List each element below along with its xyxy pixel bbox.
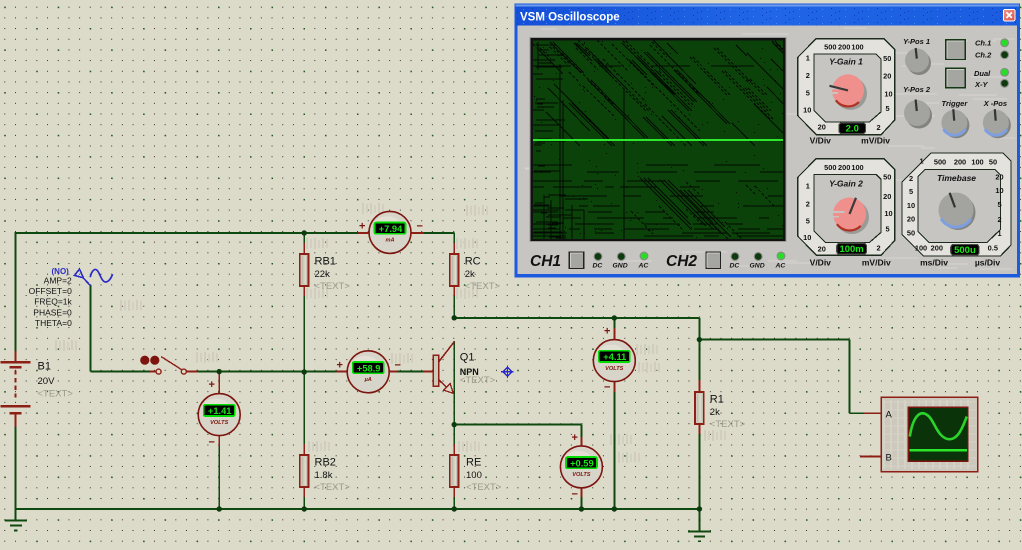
pin stub B1 + pin [15,351,17,362]
svg-text:+: + [337,360,343,372]
svg-text:200: 200 [838,163,850,172]
wire RB1 column [303,233,305,254]
svg-text:mV/Div: mV/Div [861,136,890,146]
pin stub switch right pin [186,371,198,373]
svg-text:200: 200 [931,243,943,252]
svg-text:RE: RE [466,457,481,469]
svg-text:DC: DC [730,263,740,270]
Timebase LCD 500u [951,244,979,255]
svg-text:<TEXT>: <TEXT> [315,281,351,292]
svg-text:1: 1 [919,157,923,166]
svg-text:10: 10 [884,209,892,218]
svg-text:mV/Div: mV/Div [862,258,891,268]
svg-text:10: 10 [803,106,811,115]
Y-Gain 2 LCD 100m [837,243,867,254]
resistor RE [450,455,459,487]
svg-text:10: 10 [884,90,892,99]
pin stub RB1 bottom pin [303,285,305,296]
svg-text:<TEXT>: <TEXT> [465,281,501,292]
svg-text:mA: mA [385,238,394,244]
svg-text:Ch.1: Ch.1 [975,38,991,47]
pin stub Q1 base pin [423,371,434,373]
voltmeter +0.59 [560,446,602,488]
svg-text:X -Pos: X -Pos [983,99,1007,108]
svg-text:2: 2 [909,174,913,183]
svg-text:10: 10 [995,186,1003,195]
svg-text:Dual: Dual [974,69,991,78]
CH1 trace line [533,139,783,141]
svg-text:50: 50 [883,54,891,63]
svg-text:VSM Oscilloscope: VSM Oscilloscope [520,12,620,24]
transistor Q1 [433,355,438,386]
CH1 input button [569,252,583,268]
svg-text:DC: DC [593,263,603,270]
svg-text:5: 5 [886,224,890,233]
svg-text:200: 200 [954,158,966,167]
svg-text:−: − [417,221,423,233]
svg-text:OFFSET=0: OFFSET=0 [29,286,72,296]
CH2 DC/GND/AC leds [731,253,739,261]
Trigger knob [943,112,969,138]
window frame/borders [515,4,1021,278]
svg-text:A: A [886,410,893,421]
pin stub uA meter + pin [337,371,349,373]
Y-Gain 1 LCD 2.0 [839,123,866,134]
svg-text:20: 20 [995,173,1003,182]
svg-text:B: B [886,453,892,464]
svg-text:0.5: 0.5 [988,243,998,252]
svg-text:2: 2 [806,71,810,80]
voltmeter +4.11 [593,340,635,382]
Timebase panel [902,153,1011,256]
wire top rail [16,232,455,234]
graph pin A [864,412,881,414]
svg-text:20: 20 [907,215,915,224]
CH1 DC/GND/AC leds [594,253,602,261]
svg-text:2.0: 2.0 [846,123,859,134]
pin stub VM +4.11 - pin [613,381,615,392]
svg-text:100: 100 [915,243,927,252]
pin stub RE top pin [453,444,455,456]
svg-text:Timebase: Timebase [937,173,976,183]
svg-text:<TEXT>: <TEXT> [466,482,502,493]
svg-text:2: 2 [997,215,1001,224]
pin stub B1 - pin [15,413,17,427]
svg-text:AC: AC [775,263,786,270]
svg-text:CH2: CH2 [666,253,697,270]
junction base node [302,369,307,374]
Ch.1 button [946,40,966,60]
svg-text:2: 2 [806,200,810,209]
graph pin B [860,455,881,457]
svg-text:20: 20 [818,123,826,132]
svg-text:VOLTS: VOLTS [210,420,229,426]
svg-text:100: 100 [851,43,863,52]
svg-text:Q1: Q1 [460,352,475,364]
svg-text:V/Div: V/Div [810,258,832,268]
svg-text:+58.9: +58.9 [357,363,381,373]
svg-text:500: 500 [934,158,946,167]
svg-text:FREQ=1k: FREQ=1k [34,297,72,307]
svg-text:2k: 2k [710,407,720,418]
svg-text:100: 100 [971,158,983,167]
compression ghost marks [306,238,328,249]
pin stub VM +0.59 + pin [580,437,582,447]
svg-text:50: 50 [907,229,915,238]
resistor R1 [695,392,704,424]
svg-text:−: − [209,437,215,449]
wire bottom ground rail [15,508,700,510]
svg-text:5: 5 [886,104,890,113]
ground (left) [5,520,27,522]
svg-text:100: 100 [851,163,863,172]
svg-text:5: 5 [806,217,810,226]
ammeter uA +58.9 [347,351,389,393]
Y-Gain 1 panel [798,39,895,135]
svg-text:5: 5 [997,200,1001,209]
switch SW (red actuator dots) [140,356,149,365]
svg-text:1: 1 [997,229,1001,238]
wire left vertical (battery branch) [15,232,17,352]
Y-Pos 2 knob [906,103,932,129]
svg-text:<TEXT>: <TEXT> [460,375,496,386]
svg-text:ms/Div: ms/Div [920,258,948,268]
svg-text:B1: B1 [38,361,51,373]
svg-text:500: 500 [824,163,836,172]
junction ground rail / RB2 [302,506,307,511]
voltmeter +1.41 [198,394,240,436]
svg-text:µA: µA [364,377,372,383]
svg-text:50: 50 [883,173,891,182]
Y-Gain 2 panel [798,159,895,256]
junction ground rail / VM1 [217,506,222,511]
svg-text:V/Div: V/Div [810,136,832,146]
svg-text:+0.59: +0.59 [570,458,594,468]
pin stub uA meter - pin [389,371,397,373]
pin stub R1 bottom pin [698,424,700,434]
junction RB1 top / top rail [302,230,307,235]
svg-text:2k: 2k [465,269,475,280]
svg-text:−: − [395,360,401,372]
pin stub mA meter + pin [358,232,370,234]
svg-text:CH1: CH1 [530,253,561,270]
wire voltmeter1 branch [218,372,220,394]
ground (right) [688,531,711,533]
svg-text:RC: RC [465,256,481,268]
svg-text:VOLTS: VOLTS [605,366,624,372]
wire collector row [454,317,699,319]
svg-text:−: − [604,382,610,394]
svg-text:100: 100 [466,470,482,481]
Y-Gain 2 knob [835,200,869,234]
svg-text:+: + [572,432,578,444]
CRT screen artifact pattern [533,40,828,353]
svg-text:20: 20 [818,245,826,254]
resistor RB2 [300,455,309,487]
svg-text:Y-Gain 1: Y-Gain 1 [829,57,863,67]
sine generator symbol [74,269,83,278]
Dual button [946,68,966,88]
svg-text:200: 200 [838,43,850,52]
pin stub VM +1.41 - pin [218,435,220,446]
svg-text:Trigger: Trigger [942,99,969,108]
svg-text:R1: R1 [710,394,724,406]
pin stub RC bottom pin [453,285,455,296]
svg-text:RB2: RB2 [315,457,336,469]
svg-text:+1.41: +1.41 [208,406,232,416]
wire generator branch [89,285,91,372]
junction ground rail / R1 [697,506,702,511]
junction ground rail / RE [452,506,457,511]
svg-text:GND: GND [750,263,765,270]
svg-text:100m: 100m [839,244,863,255]
CH2 input button [706,252,720,268]
resistor RB1 [300,254,309,286]
pin stub RC top pin [453,243,455,255]
svg-text:µs/Div: µs/Div [975,258,1000,268]
svg-text:+4.11: +4.11 [603,352,626,362]
svg-text:THETA=0: THETA=0 [35,318,72,328]
svg-text:5: 5 [806,89,810,98]
pin stub R1 top pin [698,380,700,392]
svg-text:10: 10 [803,233,811,242]
svg-text:10: 10 [907,201,915,210]
svg-text:20: 20 [883,192,891,201]
switch contacts and blade [156,369,161,374]
svg-text:RB1: RB1 [315,256,336,268]
svg-text:X-Y: X-Y [974,80,989,89]
Y-Gain 1 knob [834,77,867,110]
svg-text:Y-Pos 2: Y-Pos 2 [903,85,931,94]
pin stub RE bottom pin [453,487,455,498]
svg-text:GND: GND [613,263,628,270]
svg-text:<TEXT>: <TEXT> [315,482,351,493]
pin stub RB1 top pin [303,243,305,255]
svg-text:2: 2 [876,243,880,252]
svg-text:<TEXT>: <TEXT> [38,389,74,400]
junction emitter node [452,422,457,427]
svg-text:+: + [209,379,215,391]
ammeter mA +7.94 [369,211,411,253]
junction voltmeter +4.11 tap [612,315,617,320]
wire RB2 column [303,372,305,455]
VSM Oscilloscope window [515,4,1021,354]
pin stub RB2 top pin [303,444,305,456]
pin stub VM +4.11 + pin [613,328,615,341]
svg-text:Y-Pos 1: Y-Pos 1 [903,37,930,46]
Timebase knob [941,195,976,230]
wire voltmeter2 branch [613,318,615,340]
svg-text:−: − [572,489,578,501]
pin stub mA meter - pin [411,232,425,234]
svg-text:500: 500 [824,43,836,52]
svg-text:+: + [604,326,610,338]
client area [518,26,1018,275]
svg-text:VOLTS: VOLTS [572,472,591,478]
svg-text:AC: AC [638,263,649,270]
svg-text:PHASE=0: PHASE=0 [33,307,72,317]
svg-text:<TEXT>: <TEXT> [710,419,746,430]
junction ground rail / VM3 [579,506,584,511]
mode leds [1001,39,1009,47]
wire switch to base [192,371,434,373]
svg-text:Ch.2: Ch.2 [975,50,992,59]
wire to graph A [699,339,849,341]
svg-text:+7.94: +7.94 [379,224,403,234]
X-Pos knob [985,112,1011,138]
wire emitter row to voltmeter3 [454,424,581,426]
svg-text:1.8k: 1.8k [315,470,333,481]
battery B1 [1,361,31,363]
junction ground rail / VM2 [612,506,617,511]
svg-text:500u: 500u [954,245,976,256]
svg-text:20V: 20V [38,376,56,387]
pin stub VM +0.59 - pin [580,487,582,497]
svg-text:1: 1 [806,182,810,191]
wire right column (R1) [698,318,700,392]
origin marker (blue crosshair) [501,365,514,378]
junction voltmeter +1.41 tap [217,369,222,374]
junction R1 top / graph branch [697,337,702,342]
pin stub switch left pin [150,371,156,373]
svg-text:50: 50 [989,158,997,167]
svg-text:AMP=2: AMP=2 [44,276,72,286]
Y-Pos 1 knob [907,51,931,75]
svg-text:5: 5 [909,187,913,196]
scope CRT screen bezel [530,37,787,242]
pin stub RB2 bottom pin [303,487,305,498]
svg-text:2: 2 [876,123,880,132]
junction RC bottom / collector [452,315,457,320]
wire RC column [453,233,455,254]
title bar [516,7,1020,26]
svg-text:22k: 22k [315,269,331,280]
svg-text:1: 1 [806,54,810,63]
resistor RC [450,254,459,286]
graph element (A/B scope) [881,397,978,471]
wire emitter column [453,341,455,425]
svg-text:20: 20 [883,72,891,81]
svg-text:+: + [359,221,365,233]
pin stub VM +1.41 + pin [218,374,220,395]
svg-text:Y-Gain 2: Y-Gain 2 [829,179,863,189]
